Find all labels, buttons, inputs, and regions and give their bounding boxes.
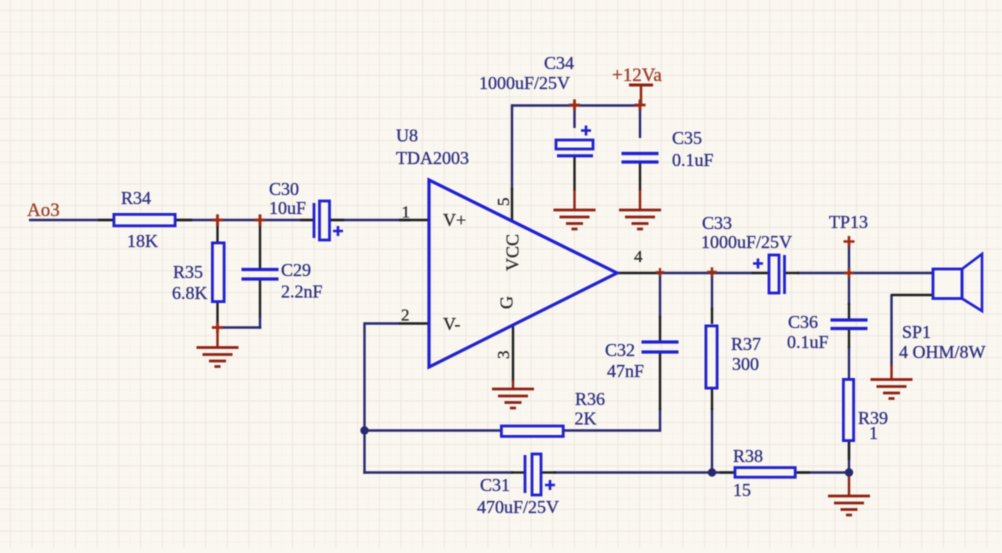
label TP13	[829, 212, 868, 232]
wire C36 branch	[848, 272, 850, 474]
svg-text:4: 4	[634, 247, 643, 266]
lead R34 right	[175, 219, 192, 221]
lead R39 bottom	[848, 440, 850, 460]
resistor R38	[735, 468, 795, 478]
value 15	[733, 480, 751, 500]
lead C36 bottom	[848, 329, 850, 349]
svg-text:C35: C35	[672, 128, 702, 148]
wire R37 branch	[711, 272, 713, 473]
pin number 1	[402, 203, 411, 222]
label C33	[702, 213, 732, 233]
svg-text:3: 3	[494, 351, 513, 360]
label R39	[858, 408, 888, 428]
wire input net Ao3	[29, 219, 314, 221]
pin 4 lead	[617, 272, 659, 274]
label U8	[396, 126, 418, 146]
junction TP13 output node	[844, 268, 854, 278]
junction C35 rail node	[634, 99, 645, 110]
pin name V+	[443, 210, 466, 230]
lead C32 top	[659, 316, 661, 343]
value 1000uF/25V C34	[479, 73, 570, 93]
svg-text:R37: R37	[731, 334, 761, 354]
pin 5 lead	[511, 188, 513, 222]
value 1	[869, 423, 878, 443]
pin number 5	[494, 198, 513, 207]
capacitor C36	[831, 320, 868, 329]
wire C34 top lead	[573, 104, 575, 128]
svg-text:Ao3: Ao3	[27, 200, 60, 221]
value 18K	[127, 231, 158, 251]
pin 3 lead	[512, 324, 514, 382]
value 47nF	[607, 361, 644, 381]
lead C33 right	[784, 272, 799, 274]
lead R38 left	[720, 471, 734, 473]
wire pin 2 feedback vertical	[365, 322, 401, 473]
lead C36 top	[848, 303, 850, 320]
svg-text:R36: R36	[575, 389, 605, 409]
svg-text:47nF: 47nF	[607, 361, 644, 381]
lead R35 top	[216, 220, 218, 243]
value 6.8K	[172, 283, 208, 303]
lead C33 left	[752, 272, 769, 274]
svg-text:1: 1	[869, 423, 878, 443]
svg-text:C30: C30	[269, 179, 299, 199]
label C29	[281, 260, 311, 280]
svg-text:2.2nF: 2.2nF	[281, 282, 323, 302]
pin name G	[497, 296, 517, 309]
label C31	[480, 475, 510, 495]
svg-text:2K: 2K	[575, 409, 597, 429]
lead C30 left	[300, 219, 314, 221]
net label Ao3	[27, 200, 60, 221]
op-amp U8 TDA2003	[429, 180, 617, 367]
lead C31 right	[541, 471, 556, 473]
lead C30 right	[330, 219, 344, 221]
svg-text:V+: V+	[443, 210, 466, 230]
svg-text:15: 15	[733, 480, 751, 500]
lead C29 bottom	[259, 280, 261, 319]
svg-text:1000uF/25V: 1000uF/25V	[479, 73, 570, 93]
power +12Va bar	[629, 85, 653, 106]
pin name V-	[443, 314, 460, 334]
value TDA2003	[396, 148, 469, 168]
wire C33 to speaker	[797, 272, 934, 274]
capacitor C35	[622, 154, 659, 163]
svg-text:R35: R35	[173, 262, 203, 282]
label C34	[544, 53, 574, 73]
resistor R35	[212, 243, 224, 302]
value 4 OHM/8W	[899, 342, 986, 362]
resistor R37	[706, 326, 717, 388]
value 1000uF/25V C33	[701, 232, 792, 252]
junction feedback node	[360, 426, 368, 434]
lead R34 left	[98, 219, 114, 221]
lead C35 bottom	[639, 162, 641, 191]
junction R39 ground node	[845, 468, 853, 476]
wire speaker return	[890, 294, 892, 366]
value 2.2nF	[281, 282, 323, 302]
label C36	[788, 312, 818, 332]
ground R38/R39	[828, 473, 870, 515]
svg-text:C34: C34	[544, 53, 574, 73]
value 10uF	[269, 198, 306, 218]
svg-text:300: 300	[732, 354, 759, 374]
junction C34 rail node	[569, 99, 580, 110]
capacitor C31 polarized	[525, 454, 555, 495]
lead R37 bottom	[711, 389, 713, 410]
wire C35 top lead	[639, 104, 641, 138]
value 0.1uF C36	[787, 332, 829, 352]
svg-text:0.1uF: 0.1uF	[672, 150, 714, 170]
svg-text:1000uF/25V: 1000uF/25V	[701, 232, 792, 252]
junction R37 bottom node	[708, 468, 716, 476]
pin 1 lead	[399, 219, 429, 221]
junction C29 node	[254, 214, 265, 225]
svg-text:G: G	[497, 296, 517, 309]
speaker SP1	[933, 254, 982, 311]
svg-text:TDA2003: TDA2003	[396, 148, 469, 168]
ground pin 3	[492, 380, 534, 408]
svg-text:4 OHM/8W: 4 OHM/8W	[899, 342, 986, 362]
lead C29 top	[259, 220, 261, 269]
pin 2 lead	[399, 322, 429, 324]
label R35	[173, 262, 203, 282]
svg-text:R38: R38	[733, 446, 763, 466]
test point TP13 marker	[844, 236, 855, 247]
svg-text:V-: V-	[443, 314, 460, 334]
wire VCC rail	[511, 104, 641, 190]
svg-text:18K: 18K	[127, 231, 158, 251]
label C35	[672, 128, 702, 148]
wire R35-C29 bottom tie	[216, 316, 261, 329]
resistor R36	[501, 426, 563, 436]
wire R36 net y430	[365, 408, 662, 432]
value 2K	[575, 409, 597, 429]
svg-text:10uF: 10uF	[269, 198, 306, 218]
wire TP13 stub	[848, 242, 850, 274]
svg-text:TP13: TP13	[829, 212, 868, 232]
lead R35 bottom	[216, 303, 218, 328]
net label +12Va	[612, 65, 662, 86]
svg-text:VCC: VCC	[503, 234, 523, 271]
pin number 3	[494, 351, 513, 360]
lead R37 top	[711, 308, 713, 324]
ground R35/C29	[197, 328, 239, 367]
label SP1	[902, 322, 931, 342]
wire output net pin4	[658, 272, 753, 274]
ground SP1	[871, 365, 913, 399]
svg-text:0.1uF: 0.1uF	[787, 332, 829, 352]
svg-text:1: 1	[402, 203, 411, 222]
label C30	[269, 179, 299, 199]
capacitor C32	[642, 342, 679, 352]
svg-text:U8: U8	[396, 126, 418, 146]
value 0.1uF C35	[672, 150, 714, 170]
resistor R39	[843, 379, 853, 440]
capacitor C30 polarized	[314, 201, 343, 240]
svg-text:R34: R34	[121, 188, 151, 208]
capacitor C33 polarized	[753, 255, 785, 294]
junction R35-C29 ground node	[212, 322, 223, 333]
svg-text:6.8K: 6.8K	[172, 283, 208, 303]
lead R38 right	[797, 471, 810, 473]
label R38	[733, 446, 763, 466]
junction R37 output node	[707, 267, 717, 277]
label C32	[605, 340, 635, 360]
junction C32 output node	[656, 268, 664, 276]
label R34	[121, 188, 151, 208]
wire C32 branch from output	[659, 272, 661, 318]
lead C31 left	[511, 471, 525, 473]
pin number 4	[634, 247, 643, 266]
svg-text:C36: C36	[788, 312, 818, 332]
svg-text:C32: C32	[605, 340, 635, 360]
resistor R34	[114, 214, 175, 225]
ground C34	[554, 190, 596, 229]
svg-text:+12Va: +12Va	[612, 65, 662, 86]
capacitor C34 polarized	[556, 126, 593, 156]
capacitor C29	[242, 270, 279, 280]
svg-text:SP1: SP1	[902, 322, 931, 342]
ground C35	[619, 190, 661, 229]
svg-text:C31: C31	[480, 475, 510, 495]
wire bottom net y472.5	[363, 471, 850, 473]
label R36	[575, 389, 605, 409]
value 470uF/25V	[477, 497, 559, 517]
wire C30 to pin 1 of U8	[330, 219, 410, 221]
value 300	[732, 354, 759, 374]
pin name VCC	[503, 234, 523, 271]
svg-text:C33: C33	[702, 213, 732, 233]
junction R35 node	[212, 214, 223, 225]
pin number 2	[401, 306, 410, 325]
lead C34 bottom	[573, 157, 575, 191]
svg-text:C29: C29	[281, 260, 311, 280]
svg-text:5: 5	[494, 198, 513, 207]
svg-text:470uF/25V: 470uF/25V	[477, 497, 559, 517]
svg-text:2: 2	[401, 306, 410, 325]
label R37	[731, 334, 761, 354]
lead C32 bottom	[659, 352, 661, 410]
lead SP1 return	[892, 294, 934, 296]
